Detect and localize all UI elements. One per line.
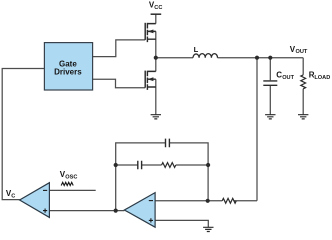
svg-text:OSC: OSC [65,175,77,181]
svg-text:LOAD: LOAD [314,75,330,81]
svg-text:Drivers: Drivers [54,68,82,77]
svg-text:OUT: OUT [282,75,294,81]
svg-text:C: C [11,194,15,200]
svg-text:CC: CC [154,5,162,11]
svg-text:OUT: OUT [296,49,308,55]
svg-text:L: L [194,45,199,54]
